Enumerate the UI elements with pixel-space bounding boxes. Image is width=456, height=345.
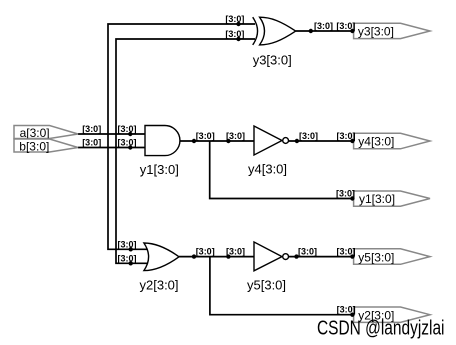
junction dot before port y1: [350, 196, 354, 200]
svg-text:[3:0]: [3:0]: [337, 247, 356, 257]
svg-text:[3:0]: [3:0]: [226, 131, 245, 141]
junction dot before port y4: [350, 139, 354, 143]
wire XOR output to port y3: [296, 30, 354, 32]
svg-text:[3:0]: [3:0]: [336, 189, 355, 199]
input port a[3:0]: [14, 126, 78, 140]
svg-text:[3:0]: [3:0]: [337, 131, 356, 141]
junction dot before port y2: [350, 313, 354, 317]
junction dot OR input 1: [129, 247, 133, 251]
svg-text:[3:0]: [3:0]: [196, 247, 215, 257]
output port y5[3:0]: [354, 249, 430, 264]
svg-text:y4[3:0]: y4[3:0]: [248, 162, 287, 177]
junction dot before port y3: [350, 29, 354, 33]
output port y1[3:0]: [354, 191, 430, 206]
junction dot OR input 2: [129, 261, 133, 265]
svg-text:a[3:0]: a[3:0]: [20, 126, 50, 140]
svg-text:[3:0]: [3:0]: [226, 247, 245, 257]
junction dot before port y5: [350, 254, 354, 258]
inverter y5 (triangle and bubble): [247, 242, 289, 293]
svg-text:b[3:0]: b[3:0]: [19, 139, 49, 153]
svg-text:[3:0]: [3:0]: [82, 138, 101, 148]
wire b port to AND input2: [78, 147, 145, 149]
svg-text:[3:0]: [3:0]: [336, 21, 355, 31]
junction dot inverter y4 output: [295, 139, 299, 143]
wire net a trunk: vertical x=108 from XOR in1 to OR in1: [108, 24, 255, 249]
svg-text:[3:0]: [3:0]: [196, 131, 215, 141]
output port y3[3:0]: [354, 23, 430, 38]
input port b[3:0]: [14, 139, 78, 153]
svg-text:y5[3:0]: y5[3:0]: [358, 250, 394, 264]
xor gate y3: [253, 17, 296, 67]
svg-text:[3:0]: [3:0]: [82, 124, 101, 134]
svg-text:y5[3:0]: y5[3:0]: [247, 278, 286, 293]
svg-text:[3:0]: [3:0]: [118, 124, 137, 134]
svg-text:[3:0]: [3:0]: [298, 247, 317, 257]
wire branch OR output down to port y2: [210, 257, 354, 315]
or gate y2: [140, 243, 180, 293]
svg-text:[3:0]: [3:0]: [118, 239, 137, 249]
svg-text:y3[3:0]: y3[3:0]: [253, 53, 292, 68]
svg-text:[3:0]: [3:0]: [225, 14, 244, 24]
svg-text:y1[3:0]: y1[3:0]: [359, 192, 395, 206]
output port y4[3:0]: [354, 133, 430, 149]
junction dot inverter y5 output: [294, 254, 298, 258]
svg-text:y1[3:0]: y1[3:0]: [140, 162, 179, 177]
junction dot XOR input 2: [236, 37, 240, 41]
svg-text:[3:0]: [3:0]: [337, 305, 356, 315]
svg-text:[3:0]: [3:0]: [314, 21, 333, 31]
junction dot before inverter y4: [226, 139, 230, 143]
junction dot OR output: [192, 254, 196, 258]
wire OR output to inverter y5 input: [179, 256, 254, 258]
wire inverter y5 output to port y5: [289, 256, 355, 258]
svg-text:[3:0]: [3:0]: [299, 131, 318, 141]
wire net b trunk: vertical x=116 from XOR in2 to OR in2: [116, 39, 255, 263]
output port y2[3:0]: [354, 307, 430, 322]
svg-text:y2[3:0]: y2[3:0]: [140, 278, 179, 293]
wire inverter y4 output to port y4: [289, 140, 355, 142]
junction dot XOR input 1: [236, 22, 240, 26]
and gate y1: [140, 126, 180, 178]
svg-text:y3[3:0]: y3[3:0]: [358, 25, 394, 39]
junction dot before inverter y5: [226, 254, 230, 258]
inverter y4 (triangle and bubble): [248, 126, 289, 177]
junction dot XOR output: [309, 29, 313, 33]
wire a port to AND input1: [78, 133, 145, 135]
svg-text:CSDN @landyjzlai: CSDN @landyjzlai: [317, 317, 445, 340]
svg-text:[3:0]: [3:0]: [225, 29, 244, 39]
wire branch AND output down to port y1: [210, 141, 354, 199]
junction dot on wire a before AND: [128, 132, 132, 136]
junction dot on wire b before AND: [128, 145, 132, 149]
junction dot AND output: [192, 139, 196, 143]
svg-text:[3:0]: [3:0]: [118, 253, 137, 263]
svg-text:[3:0]: [3:0]: [118, 138, 137, 148]
svg-text:y4[3:0]: y4[3:0]: [358, 135, 394, 149]
wire AND output to inverter y4 input: [180, 140, 254, 142]
